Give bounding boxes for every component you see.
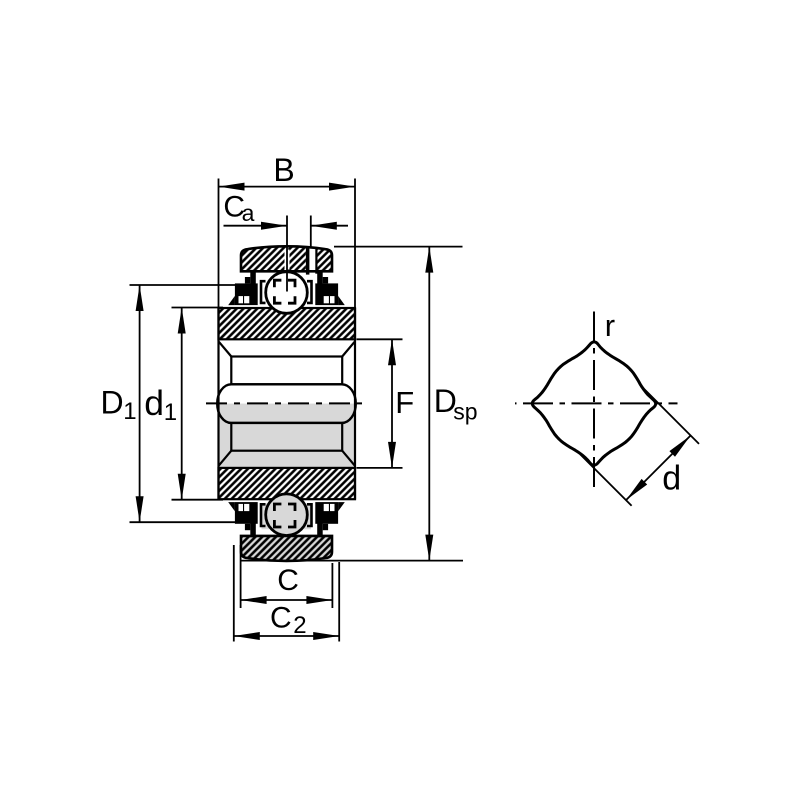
seal bottom-right: [315, 502, 344, 537]
square bore centerline horizontal: [515, 402, 678, 404]
square bore centerline vertical: [593, 312, 595, 494]
ball (top): [266, 272, 308, 314]
svg-text:C: C: [270, 602, 292, 635]
svg-text:F: F: [395, 385, 414, 420]
dashed square mark in top ball: [274, 280, 295, 303]
svg-text:r: r: [605, 308, 615, 343]
bore through-flats rectangle lower: [231, 423, 342, 451]
inner-ring bore region (lower half, grey): [219, 404, 356, 468]
dimension F: [357, 338, 403, 340]
dimension d1: [172, 307, 224, 309]
bearing axis centerline: [206, 402, 362, 404]
bore through-flats rectangle upper: [231, 357, 342, 385]
outer ring top section (spherical OD): [241, 246, 332, 274]
bore hole side profile (pill): [217, 384, 356, 423]
ball (bottom): [266, 494, 308, 536]
inner ring face lines: [217, 308, 219, 499]
dimension d (bore size): [580, 454, 632, 506]
raceway shoulder lines top row: [261, 281, 266, 303]
svg-text:d: d: [144, 383, 164, 423]
svg-text:D: D: [101, 384, 124, 420]
square bore profile: [532, 342, 655, 465]
svg-text:C: C: [277, 564, 299, 597]
inner ring bottom section: [219, 468, 356, 499]
svg-text:1: 1: [123, 398, 136, 425]
dimension Dsp: [334, 246, 463, 248]
bore chamfer bevels: [219, 342, 355, 466]
seal top-right: [315, 270, 344, 305]
svg-text:sp: sp: [453, 399, 477, 425]
extension lines for B: [218, 179, 220, 309]
dimension D1: [130, 284, 247, 286]
svg-text:B: B: [273, 152, 294, 188]
raceway shoulder lines bottom row: [261, 504, 266, 526]
outer ring bottom section (spherical OD): [241, 536, 332, 561]
dimension C2: [233, 545, 235, 642]
extension lines for Ca: [285, 250, 290, 270]
svg-text:2: 2: [293, 612, 306, 639]
seal bottom-left: [228, 502, 257, 537]
dimension Ca: [224, 225, 288, 227]
dimension B: [219, 186, 356, 188]
svg-text:d: d: [662, 460, 681, 498]
raceway strip behind bottom ball (grey): [262, 503, 312, 529]
dimension C: [240, 545, 242, 608]
inner ring top section: [219, 308, 356, 339]
svg-text:1: 1: [164, 399, 177, 426]
svg-text:a: a: [242, 200, 255, 226]
dashed square mark in bottom ball: [274, 504, 295, 527]
seal top-left: [228, 270, 257, 305]
